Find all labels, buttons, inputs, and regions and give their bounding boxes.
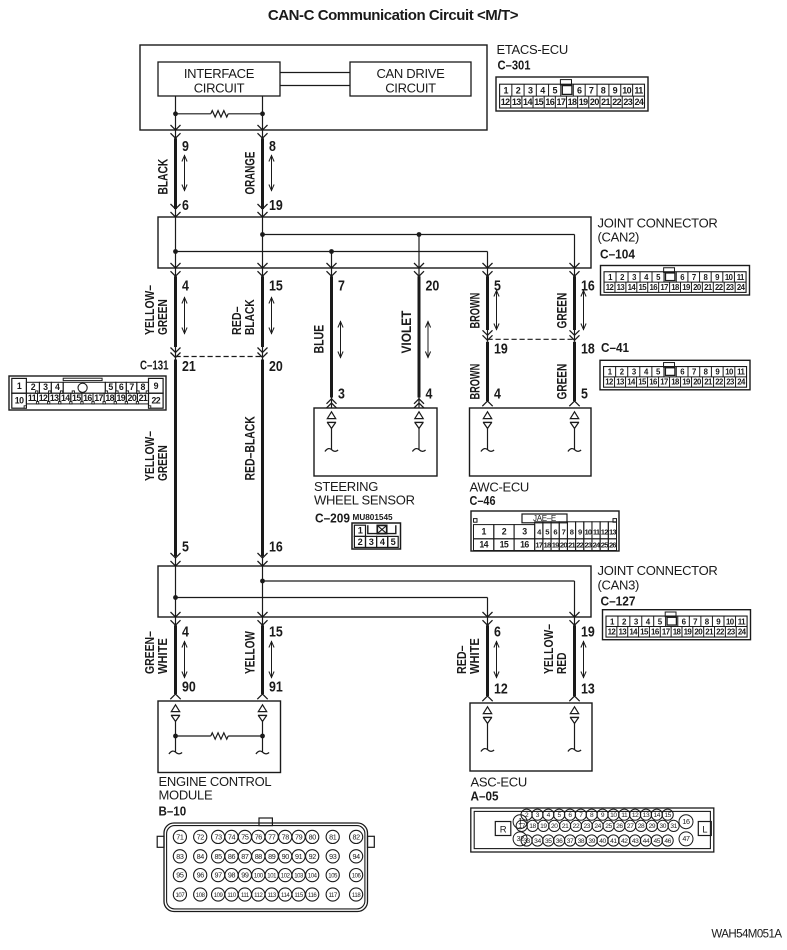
svg-text:4: 4 — [426, 387, 433, 403]
wire BLACK pin 9 to pin 6 — [171, 125, 181, 217]
svg-text:82: 82 — [352, 833, 360, 842]
svg-text:5: 5 — [108, 382, 113, 392]
svg-text:105: 105 — [328, 874, 338, 880]
shield termination ECM pin 91 — [256, 705, 269, 754]
steering wheel sensor box — [314, 408, 437, 476]
shield termination AWC pin 4 — [481, 412, 494, 452]
svg-text:4: 4 — [494, 387, 501, 403]
svg-text:26: 26 — [609, 541, 616, 550]
svg-text:12: 12 — [494, 682, 508, 698]
svg-text:110: 110 — [227, 893, 236, 899]
svg-text:76: 76 — [255, 833, 263, 842]
svg-text:6: 6 — [494, 625, 501, 641]
svg-text:106: 106 — [352, 874, 362, 880]
pin 8 label — [269, 139, 276, 155]
CAN2 branch wire C — [331, 252, 333, 269]
svg-text:24: 24 — [635, 97, 644, 107]
svg-text:10: 10 — [15, 396, 24, 406]
pin 19 label — [269, 198, 283, 214]
wire CAN-H inside ETACS — [262, 96, 264, 130]
svg-text:16: 16 — [649, 283, 658, 292]
svg-text:19: 19 — [540, 823, 547, 830]
wire label YELLOW-GREEN upper — [142, 285, 170, 335]
svg-text:18: 18 — [544, 541, 551, 550]
svg-text:80: 80 — [309, 833, 317, 842]
wire CAN-L inside ETACS — [175, 96, 177, 130]
svg-text:15: 15 — [72, 393, 81, 403]
inline connector C-131 dashed line — [176, 356, 263, 358]
pin 4 label — [182, 625, 189, 641]
svg-text:24: 24 — [737, 378, 746, 387]
svg-text:92: 92 — [309, 852, 317, 861]
direction arrow BLACK — [182, 155, 187, 191]
svg-text:94: 94 — [352, 852, 360, 861]
label B-10 — [159, 803, 187, 818]
svg-text:22: 22 — [716, 627, 725, 636]
svg-text:8: 8 — [269, 139, 276, 155]
svg-text:ETACS-ECU: ETACS-ECU — [497, 42, 568, 57]
pin 16 label — [581, 279, 595, 295]
shield termination AWC pin 5 — [568, 412, 581, 452]
connector C-46 body — [471, 511, 619, 551]
CAN2 through wire A — [175, 217, 177, 268]
svg-text:19: 19 — [581, 625, 595, 641]
svg-text:15: 15 — [639, 283, 648, 292]
svg-text:74: 74 — [228, 833, 236, 842]
svg-text:90: 90 — [282, 852, 290, 861]
svg-text:13: 13 — [609, 528, 616, 537]
direction arrow YELLOW — [269, 641, 274, 678]
svg-text:71: 71 — [176, 833, 184, 842]
svg-text:20: 20 — [693, 283, 702, 292]
svg-text:R: R — [500, 825, 507, 836]
AWC-ECU box — [470, 408, 592, 476]
svg-text:22: 22 — [715, 378, 724, 387]
wire RED-BLACK long run to pin 16 — [258, 360, 268, 567]
svg-text:33: 33 — [523, 838, 530, 845]
inline connector C-41 dashed line — [488, 338, 575, 340]
svg-text:GREEN: GREEN — [155, 299, 170, 335]
svg-text:45: 45 — [654, 838, 661, 845]
svg-text:10: 10 — [584, 528, 591, 537]
svg-text:3: 3 — [43, 382, 48, 392]
label STEERING WHEEL SENSOR — [314, 479, 415, 507]
svg-text:15: 15 — [664, 812, 671, 819]
svg-text:96: 96 — [197, 871, 205, 880]
svg-text:103: 103 — [294, 874, 304, 880]
svg-text:22: 22 — [576, 541, 583, 550]
direction arrow YELLOW-GREEN — [182, 297, 187, 334]
pin 21 label — [182, 359, 196, 375]
pin 13 label — [581, 682, 595, 698]
pin 4 label — [494, 387, 501, 403]
svg-text:13: 13 — [50, 393, 59, 403]
svg-text:20: 20 — [693, 378, 702, 387]
label JOINT CONNECTOR (CAN2) — [598, 215, 718, 244]
svg-text:2: 2 — [516, 86, 521, 96]
direction arrow RED-WHITE — [494, 641, 499, 678]
wire label RED-BLACK upper — [229, 299, 257, 335]
svg-text:CIRCUIT: CIRCUIT — [194, 80, 245, 95]
svg-text:42: 42 — [621, 838, 628, 845]
svg-text:(CAN2): (CAN2) — [598, 229, 640, 244]
label C-127 — [601, 594, 636, 609]
connector C-127 body — [603, 610, 751, 640]
wire label ORANGE — [242, 152, 258, 195]
label ENGINE CONTROL MODULE — [159, 774, 272, 802]
svg-text:18: 18 — [568, 97, 577, 107]
svg-text:16: 16 — [682, 817, 690, 826]
svg-text:JOINT CONNECTOR: JOINT CONNECTOR — [598, 215, 718, 230]
svg-text:1: 1 — [481, 527, 486, 537]
svg-text:46: 46 — [664, 838, 671, 845]
svg-text:BLUE: BLUE — [311, 325, 327, 354]
label JOINT CONNECTOR (CAN3) — [598, 563, 718, 592]
connector C-131 body — [9, 376, 166, 410]
svg-text:9: 9 — [154, 381, 159, 391]
direction arrow BLUE — [338, 321, 343, 358]
svg-text:20: 20 — [426, 279, 440, 295]
svg-text:6: 6 — [553, 528, 557, 537]
label ETACS-ECU — [497, 42, 568, 57]
svg-text:101: 101 — [267, 874, 277, 880]
svg-text:2: 2 — [31, 382, 36, 392]
svg-text:78: 78 — [282, 833, 290, 842]
wire label BROWN lower — [467, 364, 483, 400]
svg-text:11: 11 — [634, 86, 643, 96]
svg-text:17: 17 — [535, 541, 542, 550]
connector C-104 body — [601, 266, 750, 296]
svg-text:98: 98 — [228, 871, 236, 880]
svg-text:5: 5 — [391, 537, 396, 547]
svg-text:17: 17 — [660, 283, 668, 292]
svg-text:23: 23 — [727, 627, 736, 636]
svg-text:21: 21 — [139, 393, 148, 403]
wire label YELLOW-GREEN lower — [142, 431, 170, 481]
svg-text:88: 88 — [255, 852, 263, 861]
svg-text:44: 44 — [643, 838, 650, 845]
svg-text:91: 91 — [295, 852, 303, 861]
svg-text:25: 25 — [605, 823, 612, 830]
joint connector CAN2 box — [158, 217, 591, 268]
pin 12 label — [494, 682, 508, 698]
svg-text:102: 102 — [281, 874, 291, 880]
svg-text:23: 23 — [584, 541, 591, 550]
svg-text:95: 95 — [176, 871, 184, 880]
svg-text:109: 109 — [214, 893, 224, 899]
svg-text:7: 7 — [692, 368, 696, 377]
svg-text:14: 14 — [629, 627, 638, 636]
svg-text:15: 15 — [640, 627, 649, 636]
svg-text:12: 12 — [606, 283, 615, 292]
svg-text:5: 5 — [552, 86, 557, 96]
svg-text:CIRCUIT: CIRCUIT — [385, 80, 436, 95]
CAN3 internal bus rail H — [263, 581, 575, 617]
svg-text:15: 15 — [269, 279, 283, 295]
svg-text:BLACK: BLACK — [242, 299, 257, 335]
pin 19 label — [494, 342, 508, 358]
svg-text:1: 1 — [17, 381, 22, 391]
svg-text:WHITE: WHITE — [155, 638, 170, 674]
svg-text:9: 9 — [578, 528, 582, 537]
svg-text:19: 19 — [269, 198, 283, 214]
svg-text:BROWN: BROWN — [467, 293, 483, 329]
pin 5 label — [494, 279, 501, 295]
svg-text:15: 15 — [269, 625, 283, 641]
svg-text:7: 7 — [129, 382, 134, 392]
svg-text:8: 8 — [570, 528, 574, 537]
label MU801545 — [353, 513, 394, 522]
junction node ECM L — [173, 734, 178, 739]
wire BROWN pin 5 to pin 4 — [482, 263, 492, 406]
CAN2 internal bus rail L — [176, 252, 488, 269]
svg-text:11: 11 — [621, 812, 628, 819]
svg-text:8: 8 — [140, 382, 145, 392]
pin 16 label — [269, 540, 283, 556]
svg-text:7: 7 — [562, 528, 566, 537]
svg-text:9: 9 — [182, 139, 189, 155]
svg-text:18: 18 — [529, 823, 536, 830]
direction arrow GREEN-WHITE — [182, 641, 187, 678]
svg-text:14: 14 — [479, 540, 488, 550]
svg-text:INTERFACE: INTERFACE — [184, 66, 255, 81]
wire RED-WHITE pin 6 to pin 12 — [482, 612, 492, 701]
svg-text:112: 112 — [254, 893, 263, 899]
wire label YELLOW — [242, 631, 258, 674]
pin 7 label — [338, 279, 345, 295]
svg-text:C–127: C–127 — [601, 594, 636, 609]
svg-text:114: 114 — [281, 893, 290, 899]
label C-209 — [315, 510, 350, 525]
svg-text:31: 31 — [670, 823, 677, 830]
svg-text:16: 16 — [269, 540, 283, 556]
pin 20 label — [426, 279, 440, 295]
engine control module box — [158, 701, 281, 773]
svg-text:41: 41 — [610, 838, 617, 845]
svg-text:2: 2 — [358, 537, 363, 547]
svg-text:85: 85 — [214, 852, 222, 861]
svg-text:15: 15 — [534, 97, 543, 107]
svg-text:27: 27 — [627, 823, 634, 830]
svg-text:16: 16 — [545, 97, 554, 107]
svg-text:9: 9 — [613, 86, 618, 96]
wire BLUE pin 7 to pin 3 — [327, 263, 337, 408]
svg-text:GREEN: GREEN — [554, 364, 570, 400]
pin 15 label — [269, 625, 283, 641]
wire YELLOW pin 15 to pin 91 — [257, 612, 267, 699]
svg-text:14: 14 — [61, 393, 70, 403]
svg-text:40: 40 — [599, 838, 606, 845]
svg-text:WAH54M051A: WAH54M051A — [711, 929, 782, 941]
connector B-10 body — [157, 818, 374, 912]
joint connector CAN3 box — [158, 566, 591, 617]
svg-text:19: 19 — [684, 627, 693, 636]
pin 6 label — [494, 625, 501, 641]
svg-text:30: 30 — [659, 823, 666, 830]
pin 9 label — [182, 139, 189, 155]
label ASC-ECU — [471, 774, 527, 789]
svg-text:24: 24 — [594, 823, 601, 830]
svg-text:JOINT CONNECTOR: JOINT CONNECTOR — [598, 563, 718, 578]
svg-text:7: 7 — [692, 273, 696, 282]
svg-text:37: 37 — [567, 838, 574, 845]
svg-text:L: L — [702, 825, 707, 836]
svg-text:3: 3 — [528, 86, 533, 96]
svg-text:21: 21 — [704, 378, 713, 387]
svg-text:113: 113 — [268, 893, 277, 899]
label C-131 — [140, 358, 169, 373]
svg-text:17: 17 — [518, 823, 525, 830]
pin 91 label — [269, 680, 283, 696]
CAN2 junction dots — [173, 232, 421, 254]
svg-text:BLACK: BLACK — [155, 159, 171, 195]
svg-text:5: 5 — [182, 540, 189, 556]
svg-text:RED–BLACK: RED–BLACK — [242, 416, 258, 480]
svg-text:22: 22 — [152, 396, 161, 406]
svg-text:12: 12 — [605, 378, 614, 387]
shield termination sensor pin 4 — [412, 412, 425, 452]
ETACS-ECU block outline — [140, 45, 487, 130]
wire label BROWN upper — [467, 293, 483, 329]
svg-text:A–05: A–05 — [471, 788, 499, 803]
direction arrow GREEN — [581, 290, 586, 330]
svg-text:79: 79 — [295, 833, 303, 842]
connector C-41 body — [600, 360, 750, 390]
direction arrow YELLOW-RED — [581, 641, 586, 678]
label A-05 — [471, 788, 499, 803]
svg-text:26: 26 — [616, 823, 623, 830]
svg-text:20: 20 — [590, 97, 599, 107]
svg-text:16: 16 — [83, 393, 92, 403]
wire label BLUE — [311, 325, 327, 354]
svg-text:21: 21 — [182, 359, 196, 375]
svg-text:21: 21 — [601, 97, 610, 107]
svg-text:20: 20 — [269, 359, 283, 375]
svg-text:23: 23 — [584, 823, 591, 830]
svg-text:47: 47 — [682, 834, 690, 843]
direction arrow RED-BLACK — [269, 297, 274, 334]
wire label RED-BLACK lower — [242, 416, 258, 480]
svg-text:91: 91 — [269, 680, 283, 696]
svg-text:19: 19 — [579, 97, 588, 107]
svg-text:4: 4 — [540, 86, 545, 96]
svg-text:18: 18 — [671, 378, 680, 387]
junction node ECM H — [260, 734, 265, 739]
svg-text:19: 19 — [494, 342, 508, 358]
label C-104 — [600, 246, 636, 261]
svg-text:10: 10 — [725, 273, 734, 282]
ASC-ECU box — [470, 703, 592, 771]
svg-text:13: 13 — [581, 682, 595, 698]
svg-text:12: 12 — [632, 812, 639, 819]
svg-text:13: 13 — [618, 627, 627, 636]
svg-text:89: 89 — [268, 852, 276, 861]
svg-text:90: 90 — [182, 680, 196, 696]
svg-text:16: 16 — [651, 627, 660, 636]
svg-text:17: 17 — [556, 97, 565, 107]
title CAN-C Communication Circuit <M/T> — [268, 7, 519, 24]
svg-text:B–10: B–10 — [159, 803, 187, 818]
interface circuit block U1 — [158, 62, 280, 96]
svg-text:BROWN: BROWN — [467, 364, 483, 400]
svg-text:108: 108 — [196, 893, 206, 899]
direction arrow BROWN — [494, 290, 499, 330]
svg-text:10: 10 — [726, 617, 735, 626]
svg-text:WHEEL SENSOR: WHEEL SENSOR — [314, 492, 415, 507]
svg-text:20: 20 — [560, 541, 567, 550]
svg-text:12: 12 — [601, 528, 608, 537]
svg-text:13: 13 — [616, 378, 625, 387]
svg-text:97: 97 — [214, 871, 222, 880]
wire RED-BLACK pin 15 to pin 20 — [258, 263, 268, 360]
svg-text:18: 18 — [671, 283, 680, 292]
svg-text:20: 20 — [551, 823, 558, 830]
svg-text:18: 18 — [105, 393, 114, 403]
svg-text:38: 38 — [578, 838, 585, 845]
svg-text:111: 111 — [241, 893, 250, 899]
shield termination sensor pin 3 — [325, 412, 338, 452]
svg-text:5: 5 — [581, 387, 588, 403]
svg-text:24: 24 — [738, 627, 747, 636]
connector A-05 body — [471, 808, 714, 852]
svg-text:11: 11 — [28, 393, 37, 403]
wire VIOLET pin 20 to pin 4 — [414, 263, 424, 408]
svg-text:100: 100 — [254, 874, 264, 880]
svg-text:19: 19 — [682, 378, 691, 387]
svg-text:36: 36 — [556, 838, 563, 845]
shield termination ASC pin 13 — [568, 707, 581, 752]
svg-text:6: 6 — [182, 198, 189, 214]
pin 4 label — [426, 387, 433, 403]
wire YELLOW-GREEN pin 4 to pin 21 — [171, 263, 181, 360]
wire label GREEN-WHITE — [142, 631, 170, 674]
svg-text:35: 35 — [545, 838, 552, 845]
svg-text:87: 87 — [241, 852, 249, 861]
label C-46 — [470, 493, 496, 508]
wire link interface to CAN drive — [280, 73, 350, 86]
svg-text:75: 75 — [241, 833, 249, 842]
svg-text:23: 23 — [623, 97, 632, 107]
pin 18 label — [581, 342, 595, 358]
svg-text:115: 115 — [294, 893, 303, 899]
pin 5 label — [182, 540, 189, 556]
label C-41 — [601, 340, 629, 355]
svg-text:107: 107 — [175, 893, 185, 899]
svg-text:18: 18 — [581, 342, 595, 358]
wire YELLOW-GREEN long run to pin 5 — [171, 360, 181, 567]
CAN2 through wire B — [262, 217, 264, 268]
svg-text:WHITE: WHITE — [467, 638, 482, 674]
svg-text:16: 16 — [649, 378, 658, 387]
svg-text:72: 72 — [197, 833, 205, 842]
pin 90 label — [182, 680, 196, 696]
svg-text:12: 12 — [39, 393, 48, 403]
svg-text:C–131: C–131 — [140, 358, 169, 373]
CAN2 internal bus rail H — [263, 235, 575, 269]
svg-text:10: 10 — [610, 812, 617, 819]
terminating resistor R2 — [176, 733, 263, 739]
label C-301 — [498, 57, 531, 72]
svg-text:13: 13 — [643, 812, 650, 819]
svg-text:CAN-C Communication Circuit <M: CAN-C Communication Circuit <M/T> — [268, 7, 519, 24]
svg-text:22: 22 — [573, 823, 580, 830]
pin 19 label — [581, 625, 595, 641]
shield termination ASC pin 12 — [481, 707, 494, 752]
svg-text:22: 22 — [612, 97, 621, 107]
svg-text:C–41: C–41 — [601, 340, 629, 355]
svg-text:21: 21 — [562, 823, 569, 830]
svg-text:12: 12 — [501, 97, 510, 107]
